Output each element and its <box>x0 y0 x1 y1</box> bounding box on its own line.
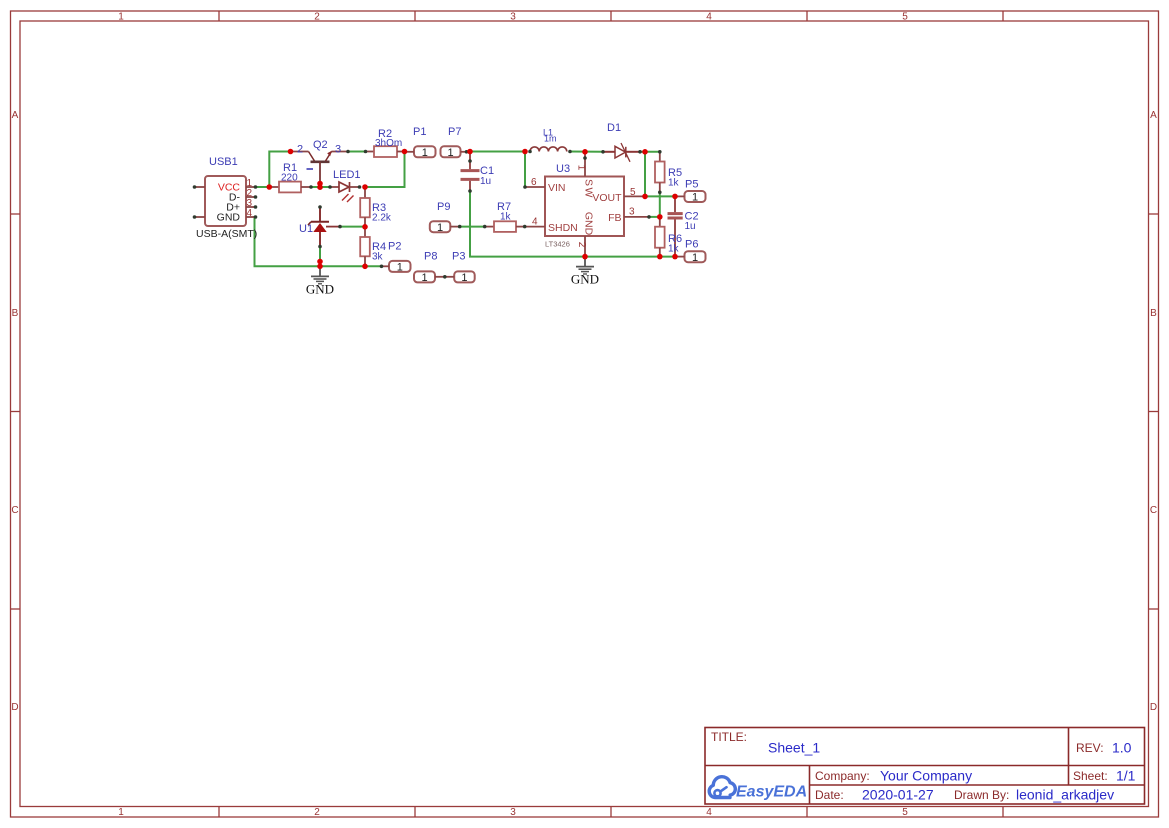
svg-text:220: 220 <box>281 173 298 184</box>
wire P9 to R7 <box>460 226 485 228</box>
svg-text:U1: U1 <box>299 223 313 235</box>
wire R5 bottom to R6 top <box>659 192 661 217</box>
svg-text:3: 3 <box>510 807 516 818</box>
resistor R5 <box>655 152 682 193</box>
svg-text:U3: U3 <box>556 163 570 175</box>
svg-text:3hOm: 3hOm <box>375 138 402 149</box>
pin header P3 <box>445 251 475 285</box>
wire U1 cathode to rail <box>319 247 321 267</box>
svg-text:REV:: REV: <box>1076 741 1104 755</box>
EasyEDA logo <box>709 777 807 801</box>
svg-text:1: 1 <box>692 192 698 204</box>
svg-text:1k: 1k <box>500 212 512 223</box>
svg-text:2020-01-27: 2020-01-27 <box>862 787 934 803</box>
transistor Q2 <box>291 139 349 184</box>
svg-text:2: 2 <box>314 12 320 23</box>
svg-text:1: 1 <box>447 147 453 159</box>
capacitor C1 <box>461 152 495 192</box>
svg-text:2: 2 <box>576 242 587 248</box>
title block <box>705 728 1145 805</box>
svg-text:Company:: Company: <box>815 769 870 783</box>
svg-text:2: 2 <box>297 144 303 156</box>
svg-text:C: C <box>1150 505 1157 516</box>
wire USB GND down and bottom rail left <box>255 217 382 266</box>
svg-text:1: 1 <box>437 222 443 234</box>
svg-text:4: 4 <box>247 208 253 219</box>
wire C1 down and bottom rail right <box>470 191 675 257</box>
svg-text:3: 3 <box>510 12 516 23</box>
svg-text:Q2: Q2 <box>313 139 328 151</box>
svg-text:1u: 1u <box>480 176 491 187</box>
svg-text:1: 1 <box>421 272 427 284</box>
SCR U1 <box>299 207 340 247</box>
svg-text:D: D <box>11 702 18 713</box>
svg-text:2: 2 <box>314 807 320 818</box>
svg-text:1k: 1k <box>668 178 680 189</box>
U3 pin SW 1 <box>584 152 586 177</box>
svg-text:5: 5 <box>902 12 908 23</box>
pin header P9 <box>430 201 460 234</box>
svg-text:C: C <box>11 505 18 516</box>
svg-text:LT3426: LT3426 <box>545 240 570 249</box>
U3 pin GND 2 <box>584 236 586 257</box>
wire Q2 emitter to R2 <box>348 151 366 153</box>
svg-text:B: B <box>12 308 19 319</box>
svg-text:P2: P2 <box>388 241 401 253</box>
svg-text:GND: GND <box>306 282 334 297</box>
capacitor C2 <box>668 196 699 256</box>
pin header P6 <box>675 239 706 264</box>
svg-text:EasyEDA: EasyEDA <box>736 784 807 801</box>
svg-text:A: A <box>1150 110 1157 121</box>
wire R2 right down to LED node <box>365 152 405 188</box>
resistor R6 <box>655 217 682 257</box>
svg-text:GND: GND <box>582 212 594 236</box>
resistor R4 <box>360 227 386 267</box>
svg-text:1m: 1m <box>544 134 557 144</box>
svg-text:4: 4 <box>532 217 538 228</box>
resistor R2 <box>366 128 405 157</box>
svg-text:1.0: 1.0 <box>1112 740 1132 756</box>
diode D1 <box>603 122 640 162</box>
pin end dots <box>193 150 662 279</box>
svg-text:Drawn By:: Drawn By: <box>954 788 1009 802</box>
svg-text:4: 4 <box>706 12 712 23</box>
svg-text:VIN: VIN <box>548 182 566 194</box>
connector USB1 <box>195 156 257 240</box>
svg-text:5: 5 <box>630 187 636 198</box>
svg-text:A: A <box>12 110 19 121</box>
svg-text:USB-A(SMT): USB-A(SMT) <box>196 228 257 240</box>
svg-text:4: 4 <box>706 807 712 818</box>
inductor L1 <box>530 128 567 152</box>
svg-text:Date:: Date: <box>815 788 844 802</box>
svg-text:P7: P7 <box>448 126 461 138</box>
svg-text:D1: D1 <box>607 122 621 134</box>
wire U1 gate to R3 R4 junction <box>340 226 365 228</box>
wire R1 right to LED1 <box>311 186 330 188</box>
U3 pin VOUT 5 <box>624 195 645 197</box>
svg-text:6: 6 <box>531 177 537 188</box>
wire node up to Q2 collector <box>269 152 290 188</box>
svg-text:LED1: LED1 <box>333 169 361 181</box>
svg-text:3: 3 <box>629 207 635 218</box>
resistor R3 <box>360 187 392 227</box>
svg-text:3: 3 <box>335 144 341 156</box>
svg-text:1k: 1k <box>668 244 680 255</box>
svg-text:1: 1 <box>118 807 124 818</box>
svg-text:3k: 3k <box>372 252 384 263</box>
LED LED1 <box>330 169 361 202</box>
svg-text:D: D <box>1150 702 1157 713</box>
svg-text:SW: SW <box>582 179 594 199</box>
svg-text:P5: P5 <box>685 179 698 191</box>
svg-text:B: B <box>1150 308 1157 319</box>
U3 pin SHDN 4 <box>525 226 545 228</box>
svg-text:leonid_arkadjev: leonid_arkadjev <box>1016 787 1114 803</box>
svg-text:GND: GND <box>571 272 599 287</box>
resistor R7 <box>485 201 525 232</box>
svg-text:1: 1 <box>692 252 698 264</box>
ground right <box>571 257 599 287</box>
pin header P5 <box>675 179 706 204</box>
junction dots <box>267 149 678 269</box>
U3 pin VIN 6 <box>525 186 545 188</box>
resistor R1 <box>269 162 311 192</box>
svg-text:2.2k: 2.2k <box>372 213 392 224</box>
svg-text:TITLE:: TITLE: <box>711 730 747 744</box>
svg-text:1u: 1u <box>685 221 696 232</box>
svg-text:Your Company: Your Company <box>880 768 972 784</box>
svg-text:1: 1 <box>422 147 428 159</box>
svg-text:1: 1 <box>576 165 587 171</box>
pin header P2 <box>382 241 411 274</box>
pin header P8 <box>414 251 445 285</box>
svg-text:1/1: 1/1 <box>1116 768 1136 784</box>
pin header P1 <box>405 126 436 159</box>
wire FB to R6 node <box>649 216 660 218</box>
wire L1 left junction down to VIN <box>524 152 526 188</box>
svg-text:SHDN: SHDN <box>548 222 578 234</box>
svg-text:1: 1 <box>118 12 124 23</box>
wire VOUT row <box>645 195 675 197</box>
svg-text:1: 1 <box>397 262 403 274</box>
IC U3 LT3426 <box>525 152 649 257</box>
wire P7 to L1 <box>467 151 526 153</box>
title block text <box>711 730 1136 803</box>
svg-text:1: 1 <box>461 272 467 284</box>
svg-text:Sheet_1: Sheet_1 <box>768 740 820 756</box>
wire D1 node down to VOUT <box>644 152 646 197</box>
svg-text:P6: P6 <box>685 239 698 251</box>
svg-text:P1: P1 <box>413 126 426 138</box>
U3 pin FB 3 <box>624 216 649 218</box>
svg-text:P9: P9 <box>437 201 450 213</box>
ground left <box>306 266 334 296</box>
svg-text:P8: P8 <box>424 251 437 263</box>
svg-text:USB1: USB1 <box>209 156 238 168</box>
svg-text:5: 5 <box>902 807 908 818</box>
pin header P7 <box>441 126 467 159</box>
svg-text:P3: P3 <box>452 251 465 263</box>
svg-text:Sheet:: Sheet: <box>1073 769 1108 783</box>
svg-text:GND: GND <box>217 212 241 224</box>
svg-text:FB: FB <box>608 212 621 224</box>
wire L1 right to D1 <box>570 151 603 153</box>
svg-text:VOUT: VOUT <box>592 192 622 204</box>
wire VCC to R1 node <box>255 152 676 267</box>
wire D1 to R5 top <box>640 151 660 153</box>
